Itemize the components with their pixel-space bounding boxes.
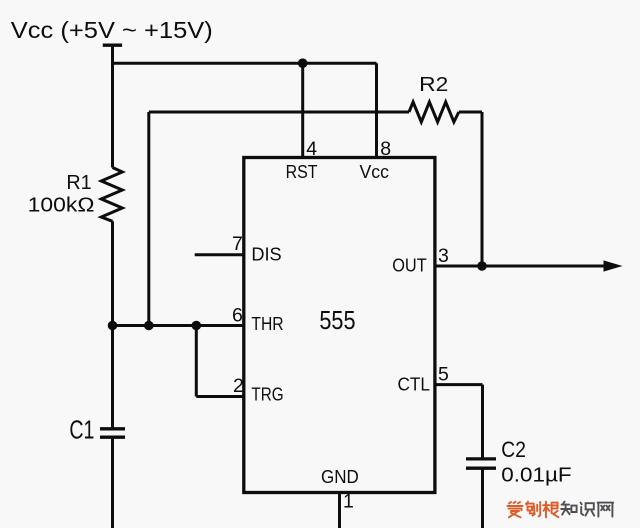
- svg-text:0.01µF: 0.01µF: [501, 465, 571, 487]
- svg-text:7: 7: [232, 233, 243, 255]
- wire feedback top horizontal: [149, 111, 409, 114]
- wire TRG horizontal: [196, 395, 244, 398]
- wire THR row: [113, 324, 244, 327]
- wire CTL down to C2: [481, 385, 484, 459]
- wire OUT to arrow: [435, 265, 605, 268]
- power symbol Vcc bar: [103, 44, 122, 47]
- wire GND pin 1: [338, 493, 341, 528]
- junction dot THR node at R1/C1: [108, 321, 118, 331]
- svg-text:8: 8: [380, 138, 391, 160]
- pin stub DIS: [195, 253, 244, 256]
- resistor R2: [409, 102, 459, 122]
- junction dot OUT node: [477, 261, 487, 271]
- junction dot top rail to pin 4: [298, 58, 308, 68]
- svg-text:RST: RST: [286, 162, 318, 182]
- svg-text:C1: C1: [69, 415, 94, 445]
- svg-text:DIS: DIS: [251, 245, 281, 265]
- wire C2 to bottom edge: [481, 468, 484, 528]
- svg-text:555: 555: [319, 307, 355, 335]
- wire R1 to THR node: [111, 221, 114, 325]
- wire feedback riser: [147, 112, 150, 326]
- svg-text:R1: R1: [66, 172, 91, 194]
- svg-text:GND: GND: [321, 467, 359, 487]
- junction dot TRG branch: [192, 321, 202, 331]
- svg-text:C2: C2: [501, 437, 526, 462]
- svg-text:1: 1: [343, 491, 354, 513]
- wire pin 8 drop: [375, 63, 378, 157]
- svg-text:2: 2: [233, 375, 244, 397]
- capacitor C1: [100, 429, 125, 437]
- svg-text:Vcc: Vcc: [360, 162, 390, 182]
- junction dot feedback riser at THR row: [144, 321, 154, 331]
- svg-text:4: 4: [306, 138, 317, 160]
- wire pin 4 drop: [301, 63, 304, 157]
- svg-text:5: 5: [438, 364, 449, 386]
- op IC U1 555 body: [244, 158, 435, 493]
- wire Vcc bar down to R1: [111, 45, 114, 167]
- svg-text:THR: THR: [251, 314, 283, 334]
- wire C1 to bottom edge: [111, 437, 114, 528]
- wire top rail: [111, 62, 377, 65]
- wire THR node down to C1: [111, 326, 114, 429]
- arrowhead output: [604, 260, 623, 271]
- svg-text:TRG: TRG: [251, 385, 283, 405]
- svg-text:Vcc (+5V ~ +15V): Vcc (+5V ~ +15V): [11, 17, 213, 43]
- svg-text:100kΩ: 100kΩ: [28, 195, 95, 217]
- wire R2 to OUT riser: [459, 111, 482, 114]
- wire CTL horizontal: [435, 383, 483, 386]
- wire OUT riser: [481, 112, 484, 266]
- resistor R1: [101, 168, 122, 222]
- svg-text:6: 6: [232, 305, 243, 327]
- watermark zhi-shi-wang (gray glyphs): [561, 502, 613, 517]
- svg-text:3: 3: [438, 245, 449, 267]
- svg-text:OUT: OUT: [392, 256, 427, 276]
- wire TRG drop: [195, 326, 198, 397]
- svg-text:R2: R2: [419, 74, 448, 96]
- watermark ai-chuang-gen (orange glyphs): [508, 502, 559, 518]
- capacitor C2: [466, 459, 496, 468]
- svg-text:CTL: CTL: [398, 375, 431, 395]
